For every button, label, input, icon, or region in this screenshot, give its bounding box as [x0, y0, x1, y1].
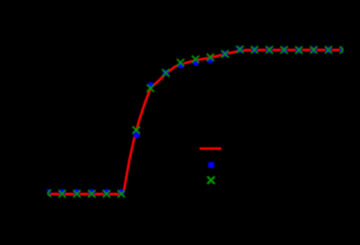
legend: blue dot sample — [208, 162, 214, 168]
legend: red line sample — [200, 147, 222, 149]
red curve — [49, 50, 344, 194]
blue dot markers — [44, 46, 346, 195]
legend: green X sample — [207, 177, 214, 184]
green X markers — [44, 46, 347, 198]
